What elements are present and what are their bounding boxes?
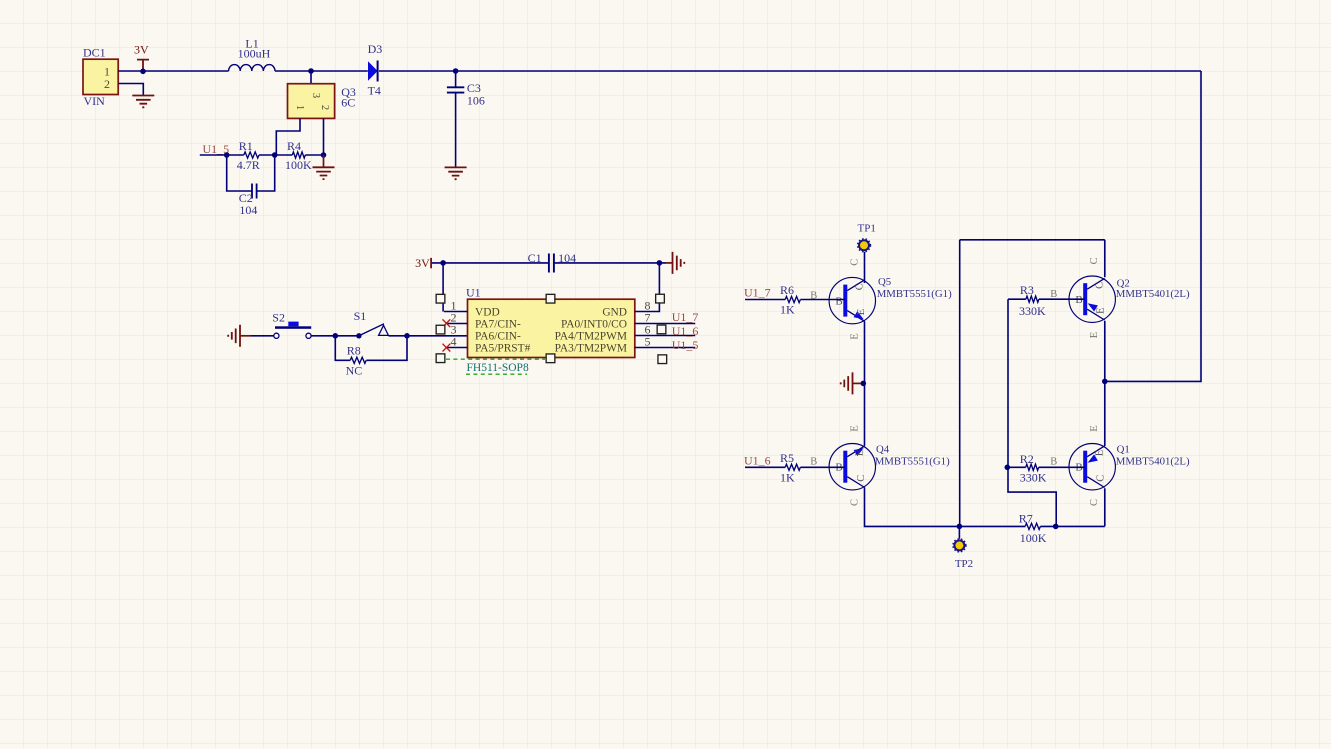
svg-text:FH511-SOP8: FH511-SOP8 [467, 362, 529, 374]
svg-text:E: E [856, 309, 867, 315]
svg-text:C: C [1089, 499, 1100, 506]
svg-text:R5: R5 [780, 451, 794, 465]
svg-text:U1: U1 [466, 286, 481, 300]
svg-text:C: C [849, 259, 860, 266]
svg-text:Q4: Q4 [876, 444, 890, 456]
svg-text:MMBT5551(G1): MMBT5551(G1) [877, 288, 952, 300]
svg-text:C: C [855, 283, 866, 290]
svg-text:C: C [856, 475, 867, 482]
svg-text:NC: NC [346, 363, 363, 377]
svg-text:100K: 100K [1020, 531, 1047, 545]
svg-text:C: C [849, 499, 860, 506]
svg-text:6C: 6C [341, 95, 355, 109]
svg-text:MMBT5401(2L): MMBT5401(2L) [1116, 455, 1190, 467]
svg-text:PA5/PRST#: PA5/PRST# [475, 343, 531, 355]
svg-text:C1: C1 [528, 251, 542, 265]
svg-text:VIN: VIN [84, 94, 106, 108]
svg-text:PA3/TM2PWM: PA3/TM2PWM [555, 343, 627, 355]
svg-text:100uH: 100uH [238, 46, 271, 60]
svg-text:E: E [1089, 332, 1100, 338]
svg-text:104: 104 [239, 203, 257, 217]
svg-text:330K: 330K [1019, 304, 1046, 318]
svg-text:U1_5: U1_5 [672, 338, 699, 352]
svg-text:330K: 330K [1020, 471, 1047, 485]
svg-text:3: 3 [310, 93, 321, 98]
svg-text:106: 106 [467, 93, 485, 107]
svg-text:3V: 3V [134, 43, 149, 57]
svg-text:E: E [1095, 450, 1106, 456]
svg-text:1K: 1K [780, 470, 795, 484]
svg-text:R4: R4 [287, 139, 301, 153]
svg-text:E: E [849, 333, 860, 339]
svg-text:B: B [1050, 457, 1057, 468]
svg-text:GND: GND [602, 307, 627, 319]
svg-text:E: E [1089, 425, 1100, 431]
svg-text:DC1: DC1 [83, 46, 106, 60]
svg-text:PA6/CIN-: PA6/CIN- [475, 331, 521, 343]
svg-text:2: 2 [104, 77, 110, 91]
svg-text:Q1: Q1 [1117, 444, 1130, 456]
svg-text:R3: R3 [1020, 283, 1034, 297]
svg-text:T4: T4 [368, 83, 381, 97]
svg-text:E: E [855, 450, 866, 456]
svg-text:4: 4 [451, 335, 457, 349]
svg-text:C: C [1096, 475, 1107, 482]
svg-text:PA0/INT0/CO: PA0/INT0/CO [561, 319, 627, 331]
svg-text:U1_7: U1_7 [672, 310, 699, 324]
svg-text:U1_6: U1_6 [744, 453, 771, 467]
svg-text:PA7/CIN-: PA7/CIN- [475, 319, 521, 331]
svg-text:B: B [1075, 294, 1082, 306]
svg-text:1K: 1K [780, 302, 795, 316]
svg-text:R8: R8 [347, 344, 361, 358]
svg-text:S2: S2 [272, 310, 285, 324]
svg-text:R1: R1 [239, 139, 253, 153]
svg-text:U1_7: U1_7 [744, 286, 771, 300]
svg-text:C: C [1095, 282, 1106, 289]
svg-text:B: B [810, 457, 817, 468]
svg-text:S1: S1 [354, 309, 367, 323]
svg-text:TP1: TP1 [858, 222, 876, 234]
svg-text:R7: R7 [1019, 512, 1033, 526]
svg-text:MMBT5401(2L): MMBT5401(2L) [1116, 288, 1190, 300]
svg-text:E: E [1096, 307, 1107, 313]
svg-text:VDD: VDD [475, 307, 500, 319]
svg-text:R6: R6 [780, 283, 794, 297]
svg-text:C: C [1089, 257, 1100, 264]
svg-text:E: E [849, 425, 860, 431]
svg-text:PA4/TM2PWM: PA4/TM2PWM [555, 331, 627, 343]
svg-text:4.7R: 4.7R [237, 158, 260, 172]
svg-text:D3: D3 [368, 42, 383, 56]
svg-text:B: B [835, 296, 842, 308]
svg-text:R2: R2 [1020, 452, 1034, 466]
svg-text:2: 2 [319, 105, 330, 110]
svg-text:100K: 100K [285, 158, 312, 172]
svg-text:5: 5 [645, 335, 651, 349]
svg-text:TP2: TP2 [955, 558, 973, 570]
svg-text:MMBT5551(G1): MMBT5551(G1) [875, 456, 950, 468]
svg-text:3V: 3V [415, 256, 430, 270]
svg-text:U1_6: U1_6 [672, 324, 699, 338]
svg-text:1: 1 [294, 105, 305, 110]
svg-text:Q5: Q5 [878, 276, 891, 288]
